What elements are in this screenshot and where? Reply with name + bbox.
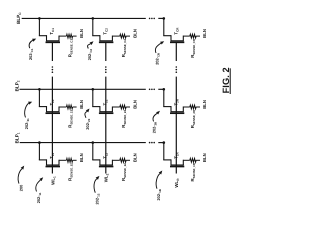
wire bus BLP_2 segment 1 (20, 88, 146, 90)
ellipsis word line WL_1 (52, 66, 54, 73)
svg-text:200: 200 (19, 185, 24, 192)
resistor R_SENSE_1R (190, 158, 196, 162)
svg-text:RSENSE_CR: RSENSE_CR (190, 38, 196, 58)
wire word line WL_2 tail (105, 167, 107, 174)
wire source step cell 11 (58, 160, 60, 165)
svg-text:RSENSE_1R: RSENSE_1R (190, 162, 196, 181)
svg-text:WL1: WL1 (51, 176, 57, 185)
wire drain jog cell C1 (39, 35, 47, 37)
wire to BLN cell 21 (73, 106, 77, 108)
callout arrow cell 202-CR (155, 43, 161, 53)
svg-text:RSENSE_22: RSENSE_22 (121, 110, 127, 128)
wire source step cell CR (182, 36, 184, 41)
wire to BLN cell CR (196, 35, 200, 37)
wire drain jog cell CR (163, 35, 171, 37)
wire word line WL_2 upper segment (105, 42, 107, 61)
svg-text:BLN: BLN (79, 100, 84, 109)
wire word line WL_1 middle segment (51, 77, 53, 114)
wire drain jog cell 12 (92, 159, 100, 161)
node junction bus/drain C2 (92, 17, 95, 20)
node junction bus/drain C1 (38, 17, 41, 20)
wire drain drop cell 2R (163, 89, 165, 106)
wire drain jog cell 21 (39, 106, 47, 108)
svg-text:RSENSE_C2: RSENSE_C2 (121, 39, 127, 58)
svg-text:RSENSE_11: RSENSE_11 (67, 163, 73, 181)
transistor T_21 gate bar (46, 112, 61, 114)
callout arrow cell 202-21 (25, 103, 29, 117)
callout arrow cell 202-12 (94, 179, 97, 193)
callout arrow cell 202-22 (85, 111, 87, 117)
resistor R_SENSE_11 (66, 158, 72, 162)
resistor R_SENSE_CR (190, 34, 196, 38)
wire word line WL_R lower segment (175, 113, 177, 166)
svg-text:TC2: TC2 (103, 28, 109, 35)
transistor T_CR gate bar (170, 41, 184, 43)
wire to BLN cell 2R (196, 106, 200, 108)
underline FIG. 2 (229, 68, 231, 94)
svg-text:TCR: TCR (174, 27, 180, 35)
node junction bus/drain 21 (38, 88, 41, 91)
svg-text:202-11: 202-11 (36, 192, 42, 203)
wire source step cell 12 (111, 160, 113, 165)
transistor T_22 channel (99, 111, 113, 113)
resistor R_SENSE_2R (190, 105, 196, 109)
callout arrow array 200 (18, 169, 22, 184)
svg-text:FIG. 2: FIG. 2 (221, 67, 231, 93)
wire source step cell 1R (182, 160, 184, 165)
transistor T_12 channel (99, 164, 113, 166)
wire source cell 12 (112, 159, 119, 161)
svg-text:WL2: WL2 (104, 173, 110, 182)
transistor T_2R gate bar (170, 112, 184, 114)
svg-text:BLN: BLN (202, 153, 207, 162)
wire bus BLP_1 segment 1 (20, 142, 146, 144)
transistor T_12 gate bar (99, 166, 114, 168)
transistor T_1R channel (171, 164, 184, 166)
svg-text:BLPC: BLPC (16, 12, 22, 24)
resistor R_SENSE_12 (120, 158, 126, 162)
wire drain jog cell C2 (92, 35, 100, 37)
svg-text:202-2R: 202-2R (152, 122, 158, 133)
svg-text:RSENSE_12: RSENSE_12 (121, 163, 127, 181)
wire drain drop cell CR (163, 18, 165, 35)
transistor T_C2 gate bar (99, 41, 114, 43)
svg-text:202-21: 202-21 (24, 118, 30, 129)
wire drain jog cell 22 (92, 106, 100, 108)
ellipsis word line WL_R (176, 66, 178, 73)
svg-text:BLP2: BLP2 (15, 80, 21, 91)
wire to BLN cell 11 (73, 159, 77, 161)
transistor T_C1 channel (46, 40, 60, 42)
transistor T_C1 gate bar (46, 41, 61, 43)
wire bus BLP_C segment 1 (22, 17, 146, 19)
ellipsis on bus BLP_2 (149, 89, 155, 91)
wire source step cell C1 (58, 36, 60, 41)
wire to BLN cell C1 (73, 35, 77, 37)
svg-text:202-C2: 202-C2 (87, 48, 93, 60)
wire source cell CR (183, 35, 190, 37)
node junction bus/drain 11 (38, 141, 41, 144)
wire word line WL_R tail (175, 167, 177, 174)
wire drain drop cell 12 (92, 143, 94, 160)
wire bus BLP_C segment 2 (158, 17, 164, 19)
wire word line WL_1 upper segment (51, 42, 53, 61)
wire word line WL_1 tail (51, 167, 53, 174)
wire drain jog cell 1R (163, 159, 171, 161)
wire to BLN cell 22 (126, 106, 130, 108)
wire drain drop cell 1R (163, 143, 165, 160)
wire to BLN cell 1R (196, 159, 200, 161)
svg-text:RSENSE_C1: RSENSE_C1 (67, 39, 73, 58)
wire drain drop cell C1 (38, 18, 40, 35)
svg-text:202-1R: 202-1R (156, 189, 162, 200)
svg-text:202-C1: 202-C1 (28, 48, 34, 60)
resistor R_SENSE_C2 (120, 34, 126, 38)
ellipsis on bus BLP_C (149, 18, 155, 20)
transistor T_11 gate bar (46, 166, 61, 168)
svg-text:202-CR: 202-CR (154, 53, 160, 65)
svg-text:BLN: BLN (132, 100, 137, 109)
wire source cell 22 (112, 106, 119, 108)
transistor T_CR channel (171, 40, 184, 42)
wire word line WL_1 lower segment (51, 113, 53, 166)
callout arrow cell 202-1R (156, 174, 160, 189)
wire drain drop cell C2 (92, 18, 94, 35)
svg-text:RSENSE_21: RSENSE_21 (67, 110, 73, 128)
svg-text:TC1: TC1 (49, 28, 55, 35)
node bus BLP_2 end corner (163, 88, 166, 91)
resistor R_SENSE_21 (66, 105, 72, 109)
callout arrow cell 202-C2 (88, 44, 91, 49)
svg-text:BLN: BLN (202, 100, 207, 109)
wire source cell 11 (59, 159, 66, 161)
node junction bus/drain 22 (92, 88, 95, 91)
callout arrow cell 202-11 (36, 180, 41, 192)
wire word line WL_2 lower segment (105, 113, 107, 166)
wire drain drop cell 11 (38, 143, 40, 160)
wire source cell 21 (59, 106, 66, 108)
callout arrow cell 202-C1 (29, 40, 33, 48)
transistor T_1R gate bar (170, 166, 184, 168)
wire bus BLP_2 segment 2 (158, 88, 164, 90)
resistor R_SENSE_22 (120, 105, 126, 109)
wire source step cell 21 (58, 106, 60, 111)
wire bus BLP_1 segment 2 (158, 142, 164, 144)
svg-text:BLN: BLN (132, 29, 137, 38)
wire drain jog cell 11 (39, 159, 47, 161)
wire source cell 2R (183, 106, 190, 108)
wire drain drop cell 22 (92, 89, 94, 106)
transistor T_22 gate bar (99, 112, 114, 114)
node bus BLP_1 end corner (163, 141, 166, 144)
svg-text:202-22: 202-22 (85, 118, 91, 129)
svg-text:RSENSE_2R: RSENSE_2R (190, 109, 196, 128)
wire source step cell C2 (111, 36, 113, 41)
ellipsis word line WL_2 (105, 66, 107, 73)
transistor T_C2 channel (99, 40, 113, 42)
wire word line WL_2 middle segment (105, 77, 107, 114)
wire drain drop cell 21 (38, 89, 40, 106)
svg-text:BLP1: BLP1 (15, 132, 21, 143)
wire drain jog cell 2R (163, 106, 171, 108)
svg-text:BLN: BLN (79, 29, 84, 38)
wire to BLN cell C2 (126, 35, 130, 37)
node junction bus/drain 12 (92, 141, 95, 144)
wire source step cell 2R (182, 106, 184, 111)
transistor T_11 channel (46, 164, 60, 166)
transistor T_2R channel (171, 111, 184, 113)
wire source cell C2 (112, 35, 119, 37)
wire word line WL_R middle segment (175, 77, 177, 114)
resistor R_SENSE_C1 (66, 34, 72, 38)
svg-text:202-12: 202-12 (95, 193, 101, 204)
transistor T_21 channel (46, 111, 60, 113)
callout arrow cell 202-2R (153, 113, 157, 121)
svg-text:BLN: BLN (202, 29, 207, 38)
wire source step cell 22 (111, 106, 113, 111)
wire source cell C1 (59, 35, 66, 37)
wire word line WL_R upper segment (175, 42, 177, 61)
svg-text:WLR: WLR (174, 178, 180, 188)
svg-text:BLN: BLN (79, 153, 84, 162)
ellipsis on bus BLP_1 (149, 142, 155, 144)
node bus BLP_C end corner (163, 17, 166, 20)
wire source cell 1R (183, 159, 190, 161)
svg-text:BLN: BLN (132, 153, 137, 162)
wire to BLN cell 12 (126, 159, 130, 161)
